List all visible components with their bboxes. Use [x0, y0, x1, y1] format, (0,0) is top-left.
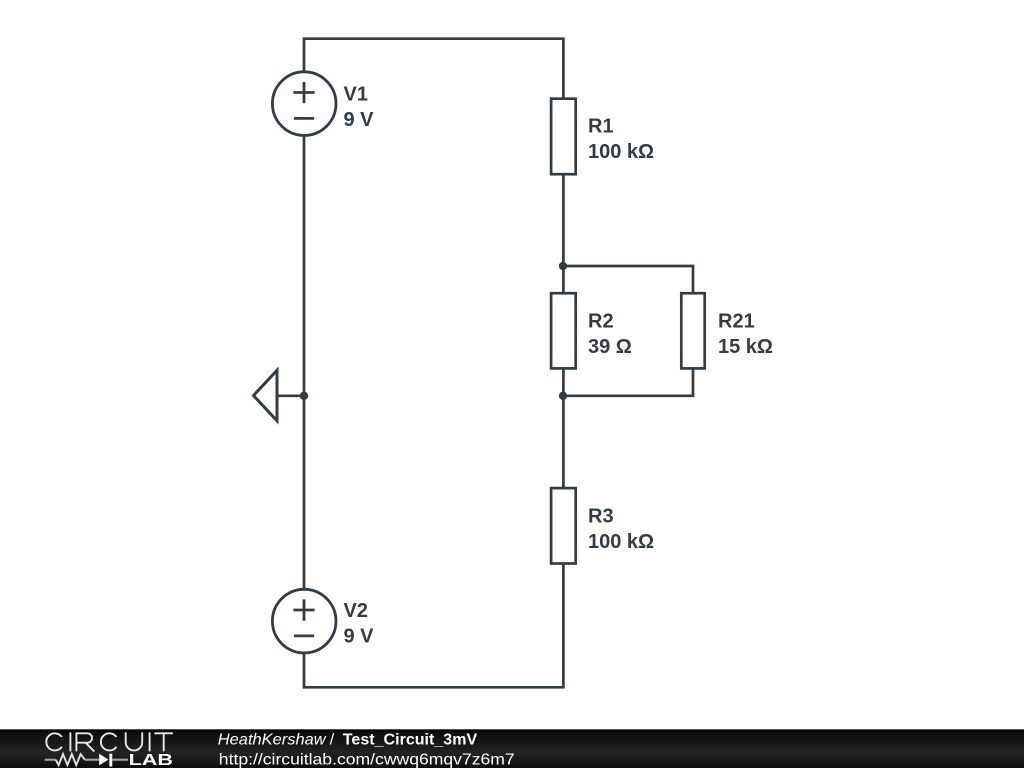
- svg-text:39 Ω: 39 Ω: [588, 336, 632, 358]
- svg-text:Test_Circuit_3mV: Test_Circuit_3mV: [343, 731, 478, 748]
- svg-text:15 kΩ: 15 kΩ: [718, 336, 773, 358]
- CircuitLab logo wordmark CIRCUIT (thin geometric strokes): [46, 732, 173, 751]
- junction node B (R2/R21/R3): [559, 392, 567, 400]
- wire top horizontal: [304, 39, 563, 99]
- svg-text:HeathKershaw: HeathKershaw: [218, 731, 327, 748]
- svg-text:9 V: 9 V: [344, 625, 375, 647]
- svg-text:R3: R3: [588, 506, 614, 528]
- wire R21 bottom branch to node B: [563, 368, 693, 395]
- resistor R1: [551, 99, 576, 175]
- svg-text:100 kΩ: 100 kΩ: [588, 531, 654, 553]
- svg-text:R2: R2: [588, 311, 614, 333]
- resistor R3: [551, 488, 576, 563]
- junction left node: [300, 392, 308, 400]
- resistor R2: [551, 293, 576, 368]
- resistor R21: [681, 293, 704, 368]
- svg-text:9 V: 9 V: [344, 109, 375, 131]
- net flag (left-pointing node marker): [254, 370, 305, 421]
- svg-text:LAB: LAB: [129, 752, 173, 768]
- voltage source V1: [272, 72, 336, 136]
- svg-text:/: /: [330, 731, 335, 748]
- wire R1 to node A: [562, 174, 565, 293]
- wire left rail middle (V1 minus to V2 plus): [303, 134, 306, 590]
- CircuitLab logo resistor-diode squiggle: [45, 754, 128, 767]
- svg-text:V2: V2: [344, 600, 368, 622]
- svg-text:R1: R1: [588, 116, 614, 138]
- wire node B to R3: [562, 368, 565, 488]
- junction node A (R1/R2/R21): [559, 262, 567, 270]
- svg-text:V1: V1: [344, 84, 368, 106]
- voltage source V2: [272, 589, 336, 653]
- svg-text:R21: R21: [718, 311, 755, 333]
- svg-text:http://circuitlab.com/cwwq6mqv: http://circuitlab.com/cwwq6mqv7z6m7: [219, 751, 515, 768]
- wire node A branch to R21: [563, 266, 693, 293]
- wire bottom horizontal: [304, 564, 563, 688]
- svg-text:100 kΩ: 100 kΩ: [588, 141, 654, 163]
